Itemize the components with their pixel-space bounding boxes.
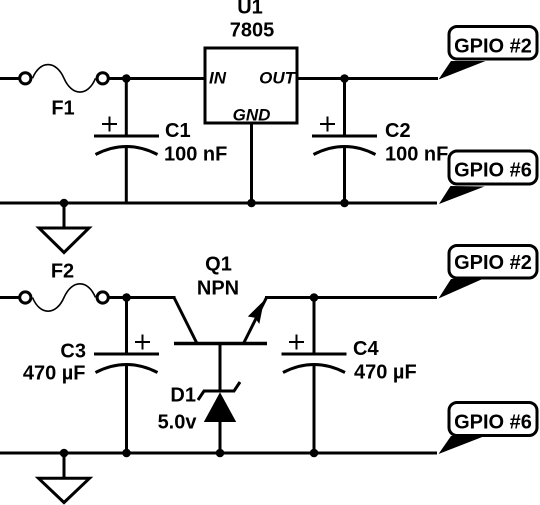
svg-text:F2: F2 [51,261,74,283]
svg-text:C1: C1 [165,120,191,142]
svg-text:470 µF: 470 µF [23,363,86,385]
node OUT/C2 junction [340,74,349,83]
svg-text:5.0v: 5.0v [158,412,198,434]
IC U1 7805 box [205,48,297,123]
wire Q1 base down to D1 [219,344,222,392]
capacitor C2 [312,79,377,204]
svg-text:OUT: OUT [259,69,297,88]
node C4 on ground rail [310,449,319,458]
svg-text:GPIO #6: GPIO #6 [454,411,532,433]
wire ground rail bottom circuit [0,452,437,455]
svg-text:C2: C2 [385,120,411,142]
node ground tap [60,199,69,208]
callout GPIO #2 (top) [439,27,538,80]
svg-text:C4: C4 [353,338,379,360]
callout GPIO #2 (bottom) [439,246,538,299]
transistor Q1 [174,298,267,344]
wire fuse to Q1 collector [109,296,176,299]
node C2 on ground rail [340,199,349,208]
wire fuse to U1 IN [109,77,206,80]
fuse F2 [20,284,109,311]
node ground tap bottom [60,449,69,458]
capacitor C4 [282,298,347,454]
capacitor C1 [94,79,159,204]
wire emitter to GPIO tail [265,296,437,299]
wire U1 OUT to GPIO tail [298,77,438,80]
node junction fuse/C3 [122,293,131,302]
svg-text:C3: C3 [60,341,86,363]
svg-text:GND: GND [233,105,271,124]
svg-text:GPIO #2: GPIO #2 [454,252,532,274]
svg-text:7805: 7805 [230,20,275,42]
wire ground rail top circuit [0,202,437,205]
svg-text:Q1: Q1 [205,254,232,276]
callout GPIO #6 (bottom) [439,403,538,455]
svg-text:NPN: NPN [197,278,239,300]
capacitor C3 [94,298,159,454]
zener diode D1 [198,382,240,453]
svg-text:F1: F1 [51,98,74,120]
svg-text:D1: D1 [170,385,196,407]
svg-text:GPIO #2: GPIO #2 [454,35,532,57]
callout GPIO #6 (top) [439,151,537,204]
wire U1 GND pin down [250,124,253,203]
svg-text:470 µF: 470 µF [354,362,417,384]
node C3 on ground rail [122,449,131,458]
svg-text:GPIO #6: GPIO #6 [454,159,532,181]
svg-text:U1: U1 [237,0,263,19]
wire input stub top-left [0,77,19,80]
svg-text:100 nF: 100 nF [385,144,448,166]
wire input stub bottom-left [0,296,19,299]
node GND pin on ground rail [247,199,256,208]
svg-text:IN: IN [209,69,227,88]
node D1 on ground rail [216,449,225,458]
node emitter/C4 junction [310,293,319,302]
fuse F1 [20,65,109,92]
ground symbol bottom circuit [39,453,90,503]
svg-text:100 nF: 100 nF [164,144,227,166]
node junction fuse/C1 [122,74,131,83]
ground symbol top circuit [39,203,89,253]
